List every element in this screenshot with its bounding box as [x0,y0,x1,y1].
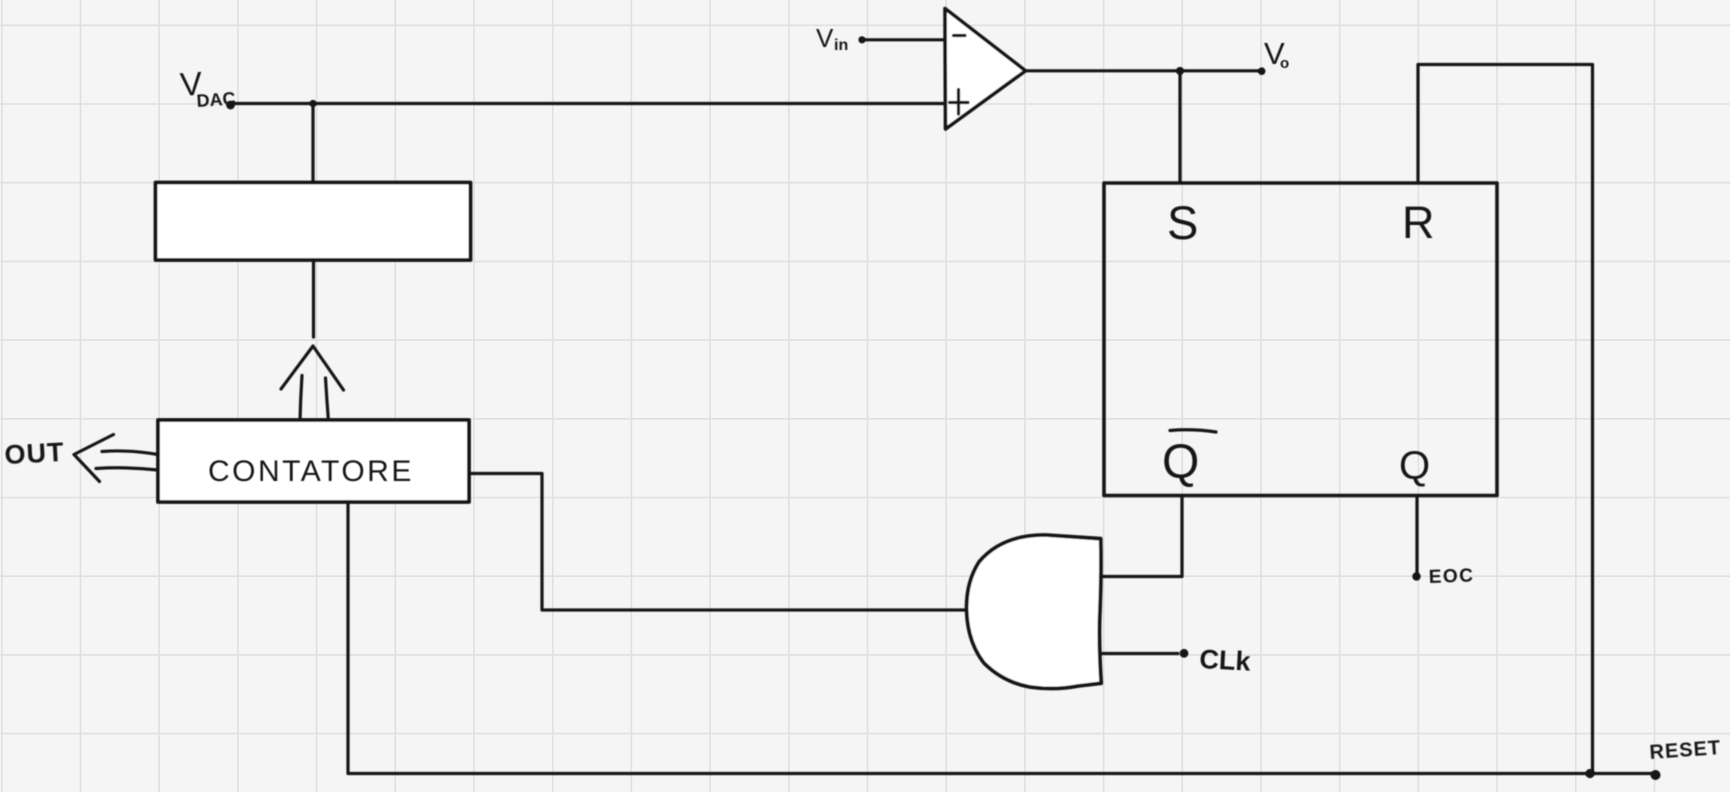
wire R input up and over to reset vertical [1418,65,1593,774]
svg-text:OUT: OUT [4,437,65,470]
svg-text:o: o [1280,55,1289,72]
wire counter right to AND gate left [469,474,966,611]
svg-text:V: V [816,23,834,53]
overline of Qbar [1170,430,1216,432]
wire counter bottom to RESET run [348,502,1655,774]
OUT arrowhead [74,435,114,482]
wire AND lower input to CLK [1101,652,1178,655]
svg-text:DAC: DAC [196,88,236,111]
wire junction to DAC box top [311,104,314,182]
svg-text:CONTATORE: CONTATORE [208,455,414,488]
wire comparator output to Vo [1026,69,1262,72]
node CLK dot [1180,649,1189,658]
wire Vin to comparator [864,38,944,41]
label Vo [1264,36,1289,72]
DAC box [156,183,471,261]
node Vo dot [1258,67,1266,75]
wire Qbar down to AND input [1102,496,1182,577]
minus sign [954,34,966,37]
junction dot VDAC/DAC [309,100,316,107]
node EOC dot [1412,572,1420,580]
AND gate G1 [967,535,1102,689]
node RESET dot [1651,770,1661,780]
wire output junction down to S [1178,71,1181,183]
svg-text:Q: Q [1162,436,1199,489]
arrow shaft left stroke [300,376,302,422]
label Vin [816,23,848,54]
svg-text:EOC: EOC [1428,565,1474,588]
svg-text:CLk: CLk [1199,644,1252,677]
wire VDAC to comparator + input [231,102,944,105]
node Vin dot [858,36,865,43]
junction dot output/S [1176,67,1184,75]
SR latch box [1104,183,1497,496]
svg-text:in: in [834,37,848,54]
plus sign [950,90,969,115]
comparator triangle U1 [945,9,1026,130]
junction dot reset/bottom [1585,769,1594,778]
OUT arrow shaft upper [102,451,158,455]
wire Q down to EOC [1415,496,1418,575]
wire DAC bottom to arrow [312,260,315,337]
svg-text:S: S [1167,196,1198,249]
OUT arrow shaft lower [96,468,158,470]
svg-text:Q: Q [1399,444,1430,488]
arrow shaft right stroke [326,378,329,422]
svg-text:R: R [1402,197,1435,248]
node VDAC dot [226,101,235,110]
arrowhead up [281,346,344,390]
label VDAC [179,65,236,111]
CONTATORE box [158,420,469,502]
